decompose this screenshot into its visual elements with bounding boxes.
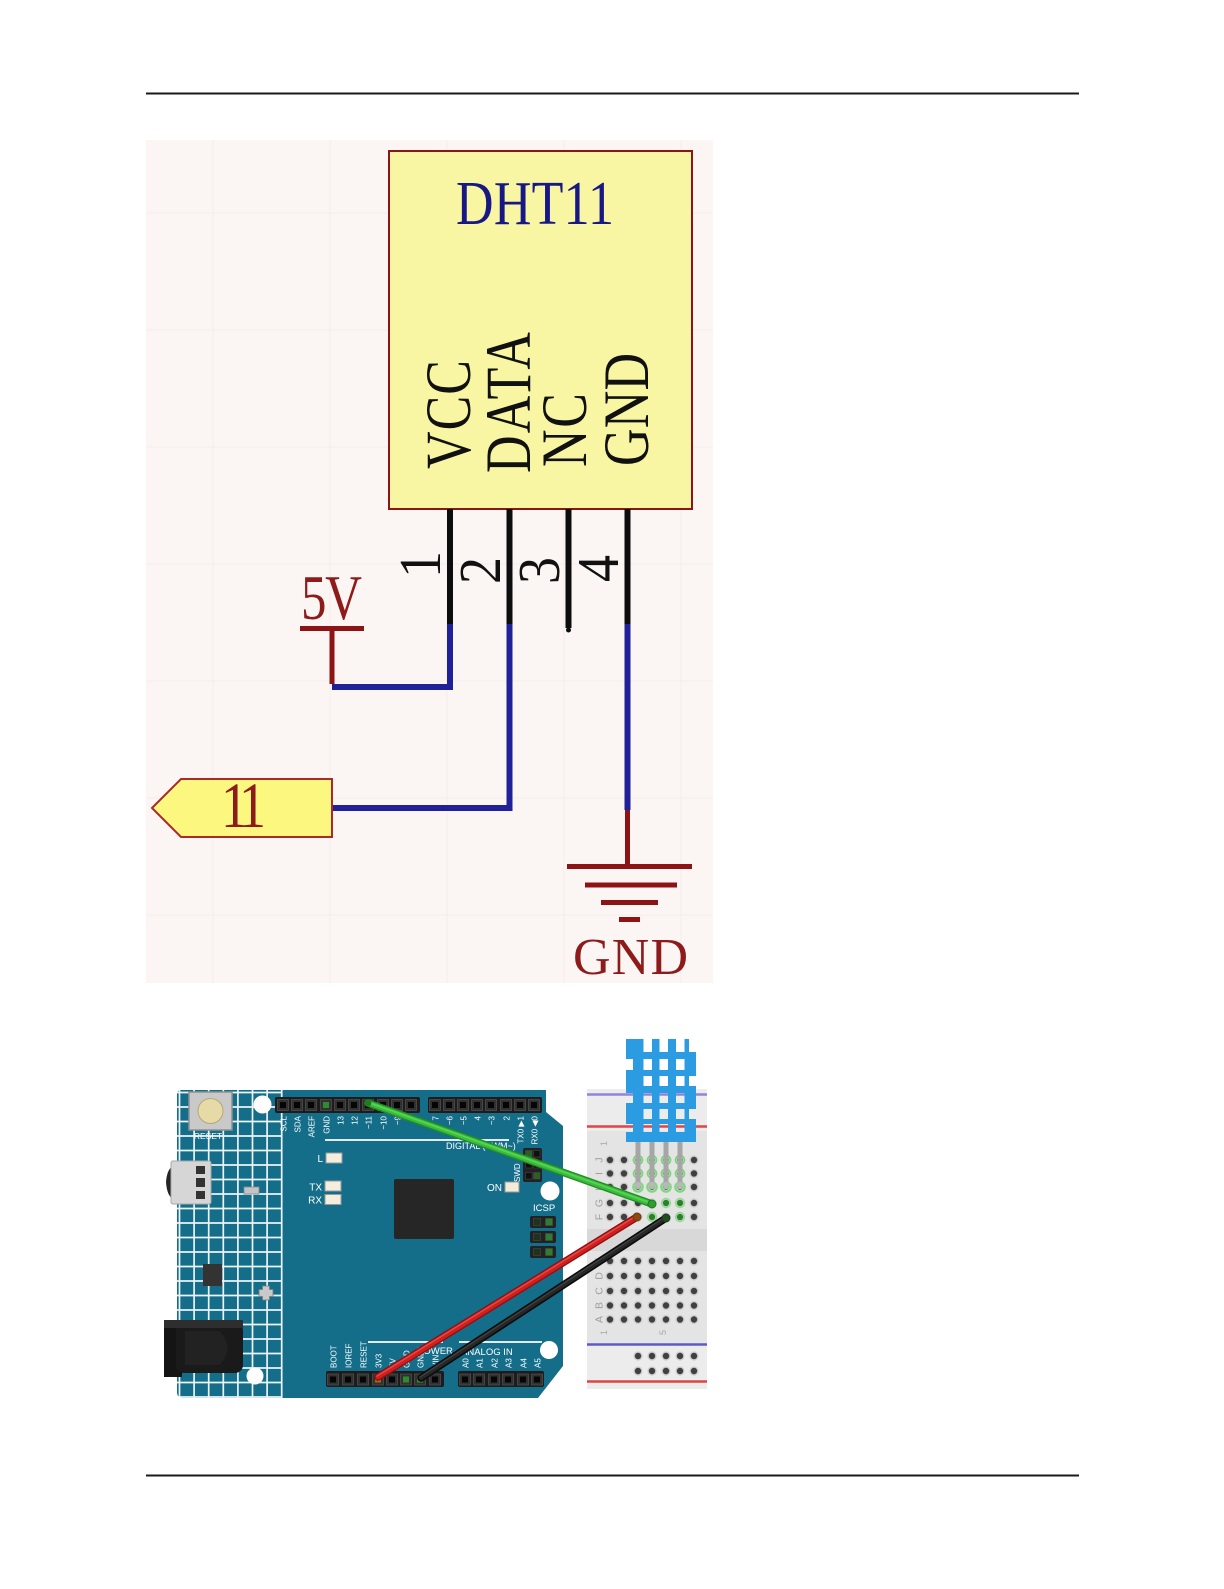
- plus-shaped pad: [259, 1286, 273, 1300]
- pin number 2: [448, 557, 514, 584]
- svg-text:TX: TX: [309, 1183, 322, 1194]
- svg-text:A2: A2: [491, 1358, 500, 1368]
- svg-text:J: J: [594, 1157, 606, 1162]
- svg-text:I: I: [594, 1172, 606, 1175]
- svg-text:2: 2: [503, 1115, 512, 1120]
- terminal flag node 11: [152, 779, 332, 837]
- svg-text:1: 1: [599, 1141, 609, 1146]
- digital pin labels: [280, 1115, 540, 1144]
- svg-text:~10: ~10: [380, 1115, 389, 1129]
- pin 4 stub: [625, 509, 631, 625]
- DHT11 component body U1: [389, 151, 692, 509]
- mounting hole right: [541, 1182, 560, 1201]
- svg-text:A1: A1: [476, 1358, 485, 1368]
- svg-text:2: 2: [448, 557, 514, 584]
- svg-text:~3: ~3: [488, 1115, 497, 1125]
- svg-text:IOREF: IOREF: [345, 1343, 354, 1368]
- svg-text:ON: ON: [487, 1183, 502, 1194]
- prototyping grid: [177, 1090, 282, 1398]
- swd header: [523, 1148, 542, 1182]
- breadboard holes: [605, 1155, 698, 1375]
- 5V label: [301, 564, 362, 634]
- svg-text:12: 12: [351, 1115, 360, 1124]
- svg-text:~11: ~11: [365, 1115, 374, 1129]
- svg-text:GND: GND: [573, 929, 688, 986]
- svg-text:F: F: [594, 1214, 606, 1220]
- svg-text:AREF: AREF: [308, 1116, 317, 1137]
- smd resistor: [244, 1187, 259, 1194]
- svg-text:RESET: RESET: [194, 1131, 222, 1141]
- svg-text:G: G: [594, 1199, 606, 1207]
- svg-text:D: D: [594, 1272, 606, 1280]
- svg-text:ICSP: ICSP: [533, 1203, 555, 1214]
- svg-text:~6: ~6: [446, 1115, 455, 1125]
- svg-text:A3: A3: [505, 1358, 514, 1368]
- ground symbol: [567, 810, 692, 920]
- pin name GND: [591, 353, 663, 466]
- svg-text:DHT11: DHT11: [456, 170, 614, 238]
- breadboard top blue rail line: [587, 1093, 707, 1096]
- svg-text:A4: A4: [520, 1358, 529, 1368]
- green wire pin11 to breadboard: [367, 1102, 652, 1204]
- digital header strip 1: [275, 1097, 420, 1113]
- schematic background: [146, 140, 713, 983]
- svg-text:4: 4: [566, 555, 632, 582]
- wire pin4 to ground: [625, 624, 631, 810]
- svg-text:SDA: SDA: [294, 1115, 303, 1132]
- power/analog pin labels: [330, 1341, 543, 1368]
- pin name DATA: [473, 332, 545, 473]
- svg-text:1: 1: [599, 1330, 609, 1335]
- svg-text:1: 1: [388, 551, 454, 578]
- main mcu chip: [394, 1179, 454, 1239]
- breadboard bottom blue rail line: [587, 1343, 707, 1346]
- pin number 3: [507, 557, 573, 584]
- breadboard bottom red rail line: [587, 1380, 707, 1383]
- mounting hole top left: [254, 1096, 272, 1114]
- svg-text:A0: A0: [462, 1358, 471, 1368]
- svg-text:GND: GND: [591, 353, 663, 466]
- icsp header: [530, 1216, 556, 1228]
- digital header strip 2: [428, 1097, 542, 1113]
- bottom page rule: [146, 1475, 1079, 1477]
- svg-text:TX0 ▶1: TX0 ▶1: [517, 1115, 526, 1143]
- analog header strip: [458, 1371, 544, 1387]
- svg-text:SCL: SCL: [280, 1115, 289, 1131]
- wire pin2 to terminal 11: [331, 624, 510, 808]
- breadboard top red rail line: [587, 1125, 707, 1128]
- pin number 4: [566, 555, 632, 582]
- power header strip: [326, 1371, 444, 1387]
- svg-text:7: 7: [432, 1115, 441, 1120]
- svg-text:13: 13: [337, 1115, 346, 1124]
- pin 2 stub: [507, 509, 513, 625]
- pin number 1: [388, 551, 454, 578]
- pin 3 stub (unconnected): [566, 509, 572, 628]
- breadboard center channel: [587, 1229, 707, 1251]
- svg-text:A: A: [594, 1316, 606, 1323]
- red wire 3V3 to breadboard: [377, 1216, 637, 1377]
- usb connector: [166, 1166, 173, 1199]
- svg-text:5: 5: [658, 1330, 668, 1335]
- small ic on grid: [203, 1264, 222, 1286]
- pin name VCC: [413, 360, 485, 469]
- reset button: [189, 1092, 232, 1130]
- svg-text:A5: A5: [534, 1358, 543, 1368]
- svg-text:~5: ~5: [460, 1115, 469, 1125]
- svg-text:RX0 ◀0: RX0 ◀0: [531, 1115, 540, 1144]
- svg-text:GND: GND: [323, 1116, 332, 1134]
- svg-text:RESET: RESET: [360, 1341, 369, 1368]
- analog caption: [459, 1341, 542, 1343]
- svg-text:3V3: 3V3: [375, 1353, 384, 1368]
- breadboard row letters: [594, 1141, 669, 1335]
- svg-text:3: 3: [507, 557, 573, 584]
- svg-text:BOOT: BOOT: [330, 1345, 339, 1368]
- digital caption line: [325, 1139, 509, 1141]
- svg-text:5V: 5V: [301, 564, 362, 634]
- pin name NC: [529, 393, 601, 467]
- black wire GND to breadboard: [420, 1217, 666, 1378]
- breadboard body: [587, 1089, 707, 1389]
- svg-text:4: 4: [474, 1115, 483, 1120]
- svg-text:L: L: [317, 1154, 323, 1165]
- svg-text:11: 11: [221, 769, 266, 841]
- svg-text:RX: RX: [308, 1196, 322, 1207]
- svg-text:B: B: [594, 1302, 606, 1309]
- arduino board outline: [177, 1090, 563, 1398]
- power caption: [368, 1341, 443, 1343]
- pin 1 stub: [447, 509, 453, 625]
- mounting hole bottom left: [247, 1368, 264, 1385]
- power symbol 5V: [300, 626, 364, 631]
- svg-text:C: C: [594, 1287, 606, 1295]
- power jack: [164, 1320, 182, 1377]
- dht11 sensor legs: [633, 1140, 685, 1192]
- label 11: [221, 769, 266, 841]
- wire pin1 to 5V: [332, 624, 450, 687]
- svg-text:SWD: SWD: [513, 1163, 522, 1182]
- DHT11 label: [456, 170, 614, 238]
- mounting hole bottom right: [540, 1341, 558, 1359]
- top page rule: [146, 93, 1079, 95]
